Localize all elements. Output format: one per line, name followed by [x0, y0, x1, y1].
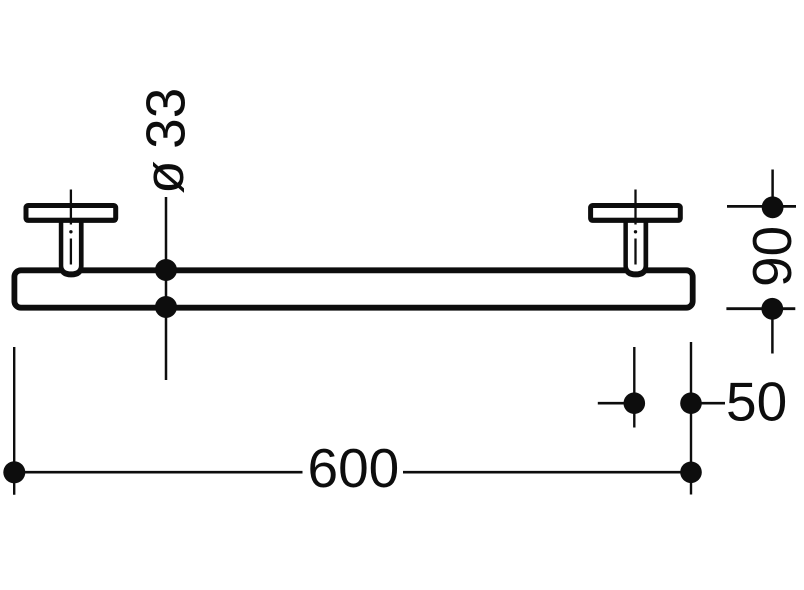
- svg-text:600: 600: [308, 437, 400, 499]
- svg-text:90: 90: [741, 226, 803, 287]
- svg-text:ø: ø: [133, 160, 195, 194]
- svg-text:50: 50: [726, 371, 787, 433]
- svg-text:33: 33: [135, 88, 197, 149]
